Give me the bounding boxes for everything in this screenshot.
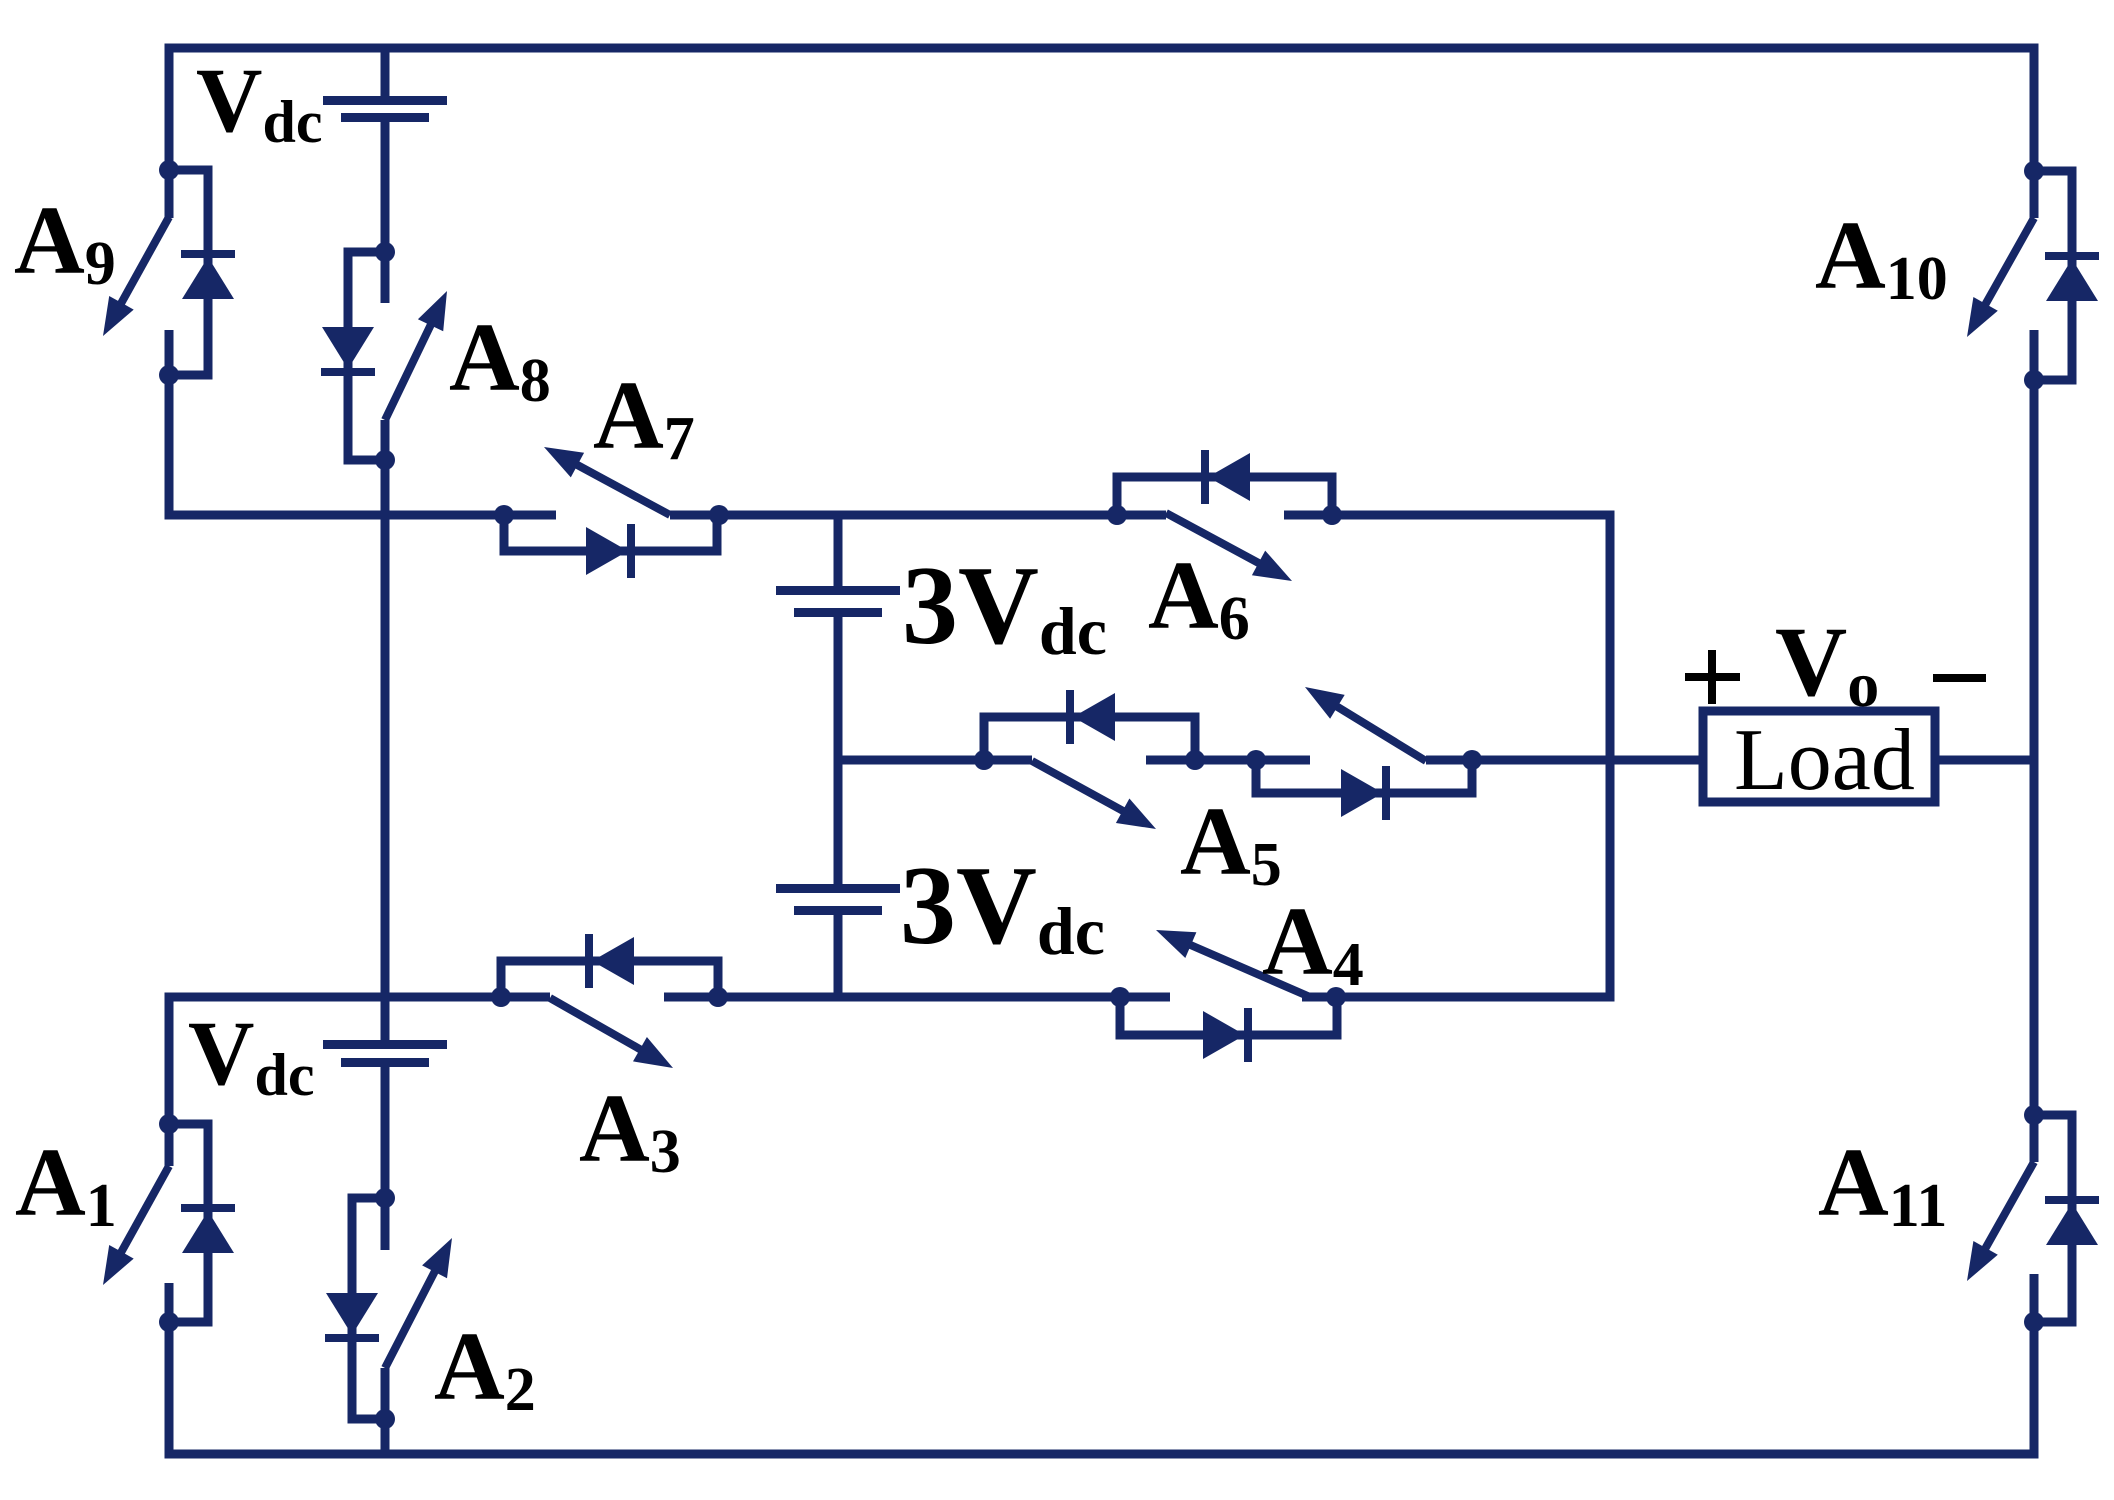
- node A8 top: [375, 242, 395, 262]
- wire A8 upper stub: [381, 252, 390, 303]
- wire capacitor column from upper bus to 3Vdc battery: [834, 515, 843, 586]
- diode of A11 antiparallel: [2034, 1115, 2072, 1322]
- switch A5 right cell blade: [1332, 704, 1426, 761]
- switch A4 blade: [1185, 943, 1310, 997]
- wire mid output row A5 right cell to Load left terminal: [1426, 756, 1703, 765]
- diode of A10 antiparallel: [2034, 171, 2072, 380]
- wire top battery to A8 top node: [381, 122, 390, 252]
- node A5 left cell right: [1185, 750, 1205, 770]
- diode of A5 right cell bypass: [1256, 760, 1472, 793]
- diode of A8 antiparallel: [348, 252, 385, 460]
- wire right rail A11 upper stub: [2030, 1115, 2039, 1162]
- node A3 right: [708, 987, 728, 1007]
- wire right rail A11 lower stub: [2030, 1274, 2039, 1322]
- wire mid output row between A5 cells: [1146, 756, 1310, 765]
- svg-text:Load: Load: [1734, 712, 1915, 809]
- diode of A7 bypass: [504, 515, 717, 551]
- node A2 top: [375, 1188, 395, 1208]
- wire Load right terminal to right rail: [1935, 756, 2034, 765]
- node A2 bottom: [375, 1409, 395, 1429]
- load box: [1703, 711, 1935, 802]
- diode of A9 antiparallel: [169, 170, 208, 375]
- wire left rail A9 lower stub: [165, 330, 174, 375]
- switch A10 blade: [1983, 218, 2034, 309]
- node A7 left: [494, 505, 514, 525]
- node A4 left: [1110, 987, 1130, 1007]
- wire lower bus left corner to A3 left contact: [169, 997, 550, 1124]
- switch A5 left cell blade: [1032, 761, 1128, 814]
- battery Vdc bottom-left: [323, 1040, 447, 1049]
- battery Vdc top-left: [323, 96, 447, 105]
- node A11 bottom: [2024, 1312, 2044, 1332]
- switch A3 blade: [550, 998, 645, 1052]
- switch A1 blade: [119, 1166, 169, 1257]
- wire center column A8 bottom node through buses to lower battery: [381, 460, 390, 1040]
- wire mid output row to A5 left contact: [838, 756, 1032, 765]
- wire lower bus A3 right contact to A4 left contact: [664, 993, 1170, 1002]
- label minus sign of Vo: [1933, 674, 1986, 682]
- node A9 bottom: [159, 365, 179, 385]
- switch A9 blade and contacts: [119, 217, 169, 308]
- wire A2 lower stub: [381, 1368, 390, 1419]
- node A7 right: [709, 505, 729, 525]
- node A3 left: [491, 987, 511, 1007]
- node A11 top: [2024, 1105, 2044, 1125]
- wire between the two 3Vdc batteries crossing mid output node: [834, 617, 843, 884]
- diode of A3 bypass: [501, 961, 718, 997]
- node A6 left: [1107, 505, 1127, 525]
- battery 3Vdc lower: [776, 884, 900, 893]
- node A5 left cell left: [974, 750, 994, 770]
- wire A2 bottom node to bottom border: [381, 1419, 390, 1454]
- wire A8 lower stub: [381, 420, 390, 460]
- node A4 right: [1326, 987, 1346, 1007]
- wire right rail A10 upper stub: [2030, 171, 2039, 218]
- node A5 right cell right: [1462, 750, 1482, 770]
- diode of A6 bypass: [1117, 477, 1332, 515]
- wire left rail down to upper bus corner and bus to A7 left contact: [169, 375, 556, 515]
- wire top battery column from top border: [381, 48, 390, 96]
- switch A7 blade: [572, 462, 670, 515]
- wire left rail A1 lower stub: [165, 1283, 174, 1322]
- diode of A5 left cell bypass: [984, 717, 1195, 760]
- wire upper bus A7 right contact to A6 left contact: [670, 511, 1166, 520]
- wire top border and upper side rails: [169, 48, 2034, 171]
- diode of A4 bypass: [1120, 997, 1337, 1035]
- switch A6 blade: [1166, 513, 1264, 566]
- node A9 top: [159, 160, 179, 180]
- node A10 bottom: [2024, 370, 2044, 390]
- wire A2 upper stub: [381, 1198, 390, 1250]
- label plus sign of Vo: [1685, 673, 1740, 681]
- node A6 right: [1322, 505, 1342, 525]
- battery 3Vdc upper: [776, 586, 900, 595]
- wire right rail between A10 and A11: [2030, 380, 2039, 1115]
- wire upper bus A6 right contact to inner right rail corner down to lower bus A4 right contact: [1284, 515, 1610, 997]
- diode of A1 antiparallel: [169, 1124, 208, 1322]
- switch A11 blade: [1983, 1162, 2034, 1253]
- wire bottom border and lower side rails: [169, 1322, 2034, 1454]
- node A5 right cell left: [1246, 750, 1266, 770]
- node A10 top: [2024, 161, 2044, 181]
- wire left rail A9 upper stub: [165, 170, 174, 218]
- wire left rail A1 upper stub: [165, 1124, 174, 1166]
- node A8 bottom: [375, 450, 395, 470]
- diode of A2 antiparallel: [352, 1198, 385, 1419]
- node A1 bottom: [159, 1312, 179, 1332]
- node A1 top: [159, 1114, 179, 1134]
- wire right rail A10 lower stub: [2030, 330, 2039, 380]
- wire lower 3Vdc battery to lower bus: [834, 915, 843, 997]
- switch A8 blade: [385, 320, 433, 420]
- wire lower battery to A2 top node: [381, 1067, 390, 1198]
- switch A2 blade: [385, 1266, 437, 1368]
